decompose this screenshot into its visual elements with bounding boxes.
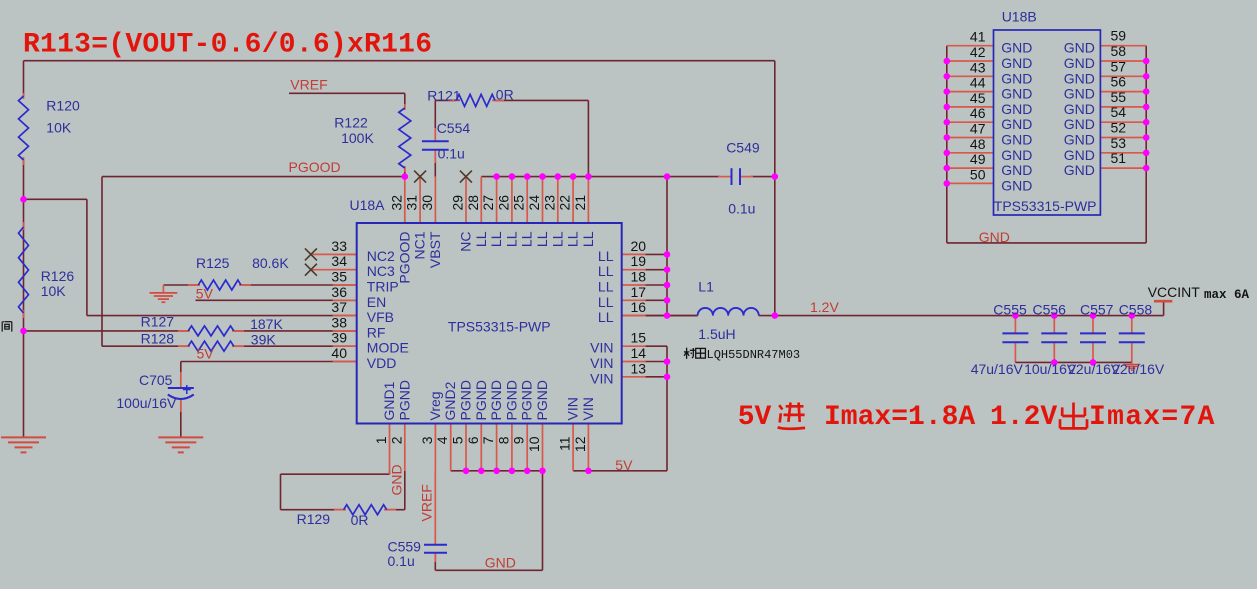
svg-text:GND: GND [1064,40,1095,56]
svg-text:18: 18 [631,269,647,285]
svg-text:LL: LL [549,231,565,247]
svg-text:56: 56 [1111,74,1127,90]
svg-text:VIN: VIN [590,370,613,386]
svg-text:5V: 5V [197,346,215,362]
svg-text:30: 30 [419,195,435,211]
svg-text:U18B: U18B [1002,9,1037,25]
svg-text:187K: 187K [250,316,283,332]
svg-text:PGOOD: PGOOD [396,232,412,284]
svg-text:45: 45 [970,90,986,106]
svg-text:100u/16V: 100u/16V [116,395,177,411]
svg-text:0.1u: 0.1u [388,553,415,569]
svg-text:TPS53315-PWP: TPS53315-PWP [448,319,551,335]
svg-text:GND: GND [1001,147,1032,163]
svg-text:52: 52 [1111,120,1127,136]
svg-text:9: 9 [511,436,527,444]
svg-text:0R: 0R [351,512,369,528]
svg-text:VIN: VIN [590,340,613,356]
svg-text:L1: L1 [698,279,714,295]
svg-text:GND: GND [1064,116,1095,132]
svg-text:0.1u: 0.1u [438,146,465,162]
svg-text:10: 10 [526,436,542,452]
svg-text:22: 22 [557,195,573,211]
svg-text:5: 5 [450,436,466,444]
svg-text:LL: LL [519,231,535,247]
svg-text:R120: R120 [46,98,80,114]
svg-text:GND: GND [1064,86,1095,102]
svg-text:GND: GND [1001,55,1032,71]
svg-text:RF: RF [367,324,386,340]
svg-text:44: 44 [970,75,986,91]
svg-text:R121: R121 [427,88,461,104]
svg-text:12: 12 [572,436,588,452]
svg-text:47u/16V: 47u/16V [971,361,1024,377]
svg-text:GND1: GND1 [381,381,397,420]
svg-text:VDD: VDD [367,355,397,371]
svg-text:5V: 5V [738,402,772,433]
svg-text:TRIP: TRIP [367,279,399,295]
svg-text:PGND: PGND [519,380,535,420]
svg-text:54: 54 [1111,104,1127,120]
svg-text:LL: LL [598,263,614,279]
svg-text:C555: C555 [993,302,1027,318]
svg-text:80.6K: 80.6K [252,255,289,271]
svg-text:C556: C556 [1033,302,1067,318]
svg-text:VIN: VIN [580,397,596,420]
svg-text:PGND: PGND [396,380,412,420]
svg-text:40: 40 [331,345,347,361]
svg-text:GND: GND [1001,162,1032,178]
svg-text:PGND: PGND [503,380,519,420]
svg-text:1.2V: 1.2V [990,402,1057,433]
svg-text:11: 11 [557,436,573,451]
svg-text:34: 34 [331,253,347,269]
svg-text:38: 38 [331,314,347,330]
svg-text:GND: GND [1064,162,1095,178]
svg-text:GND: GND [1064,132,1095,148]
svg-text:LL: LL [598,279,614,295]
svg-text:LL: LL [488,231,504,247]
svg-text:R127: R127 [141,314,175,330]
svg-text:R128: R128 [141,331,175,347]
svg-text:35: 35 [331,269,347,285]
svg-text:2: 2 [388,436,404,444]
svg-text:max 6A: max 6A [1204,288,1250,302]
svg-text:GND: GND [1064,70,1095,86]
svg-text:55: 55 [1111,89,1127,105]
svg-text:VREF: VREF [419,484,435,521]
svg-text:50: 50 [970,166,986,182]
svg-text:U18A: U18A [350,197,386,213]
svg-text:C558: C558 [1119,302,1153,318]
svg-text:C557: C557 [1080,302,1114,318]
svg-text:VIN: VIN [590,355,613,371]
svg-text:GND: GND [1001,101,1032,117]
svg-text:GND2: GND2 [442,381,458,420]
svg-text:VFB: VFB [367,309,394,325]
svg-text:13: 13 [631,360,647,376]
svg-text:LL: LL [580,231,596,247]
svg-text:LQH55DNR47M03: LQH55DNR47M03 [707,348,801,362]
svg-text:47: 47 [970,121,986,137]
svg-text:3: 3 [419,436,435,444]
svg-text:NC2: NC2 [367,248,395,264]
svg-text:Imax=7A: Imax=7A [1089,402,1216,433]
svg-text:VBST: VBST [427,231,443,268]
svg-text:59: 59 [1111,28,1127,44]
svg-text:PGOOD: PGOOD [289,159,341,175]
svg-text:48: 48 [970,136,986,152]
svg-text:R125: R125 [196,255,230,271]
svg-text:LL: LL [473,231,489,247]
svg-text:46: 46 [970,105,986,121]
svg-text:0R: 0R [496,87,514,103]
svg-text:33: 33 [331,238,347,254]
svg-text:C554: C554 [437,120,471,136]
svg-text:NC3: NC3 [367,263,395,279]
svg-text:5V: 5V [196,286,214,302]
svg-text:39K: 39K [251,332,277,348]
svg-text:R122: R122 [334,115,368,131]
svg-text:GND: GND [1001,70,1032,86]
svg-text:1.2V: 1.2V [810,299,839,315]
svg-text:GND: GND [1064,147,1095,163]
svg-text:10K: 10K [41,283,67,299]
svg-text:0.1u: 0.1u [728,201,755,217]
svg-text:GND: GND [1001,40,1032,56]
svg-text:LL: LL [534,231,550,247]
svg-text:22u/16V: 22u/16V [1112,361,1165,377]
svg-text:1.5uH: 1.5uH [698,326,735,342]
svg-text:R113=(VOUT-0.6/0.6)xR116: R113=(VOUT-0.6/0.6)xR116 [23,30,432,61]
svg-text:PGND: PGND [473,380,489,420]
svg-text:39: 39 [331,330,347,346]
svg-text:36: 36 [331,284,347,300]
svg-text:GND: GND [1001,116,1032,132]
svg-text:VIN: VIN [565,397,581,420]
svg-text:6: 6 [465,436,481,444]
svg-text:20: 20 [631,238,647,254]
svg-text:EN: EN [367,294,386,310]
svg-text:PGND: PGND [458,380,474,420]
svg-text:37: 37 [331,299,347,315]
svg-text:NC1: NC1 [412,231,428,259]
svg-text:5V: 5V [615,457,633,473]
svg-text:GND: GND [485,555,516,571]
svg-text:25: 25 [511,195,527,211]
svg-text:R126: R126 [41,268,75,284]
svg-text:29: 29 [450,195,466,211]
svg-text:26: 26 [495,195,511,211]
svg-text:24: 24 [526,195,542,211]
svg-text:LL: LL [598,248,614,264]
svg-text:LL: LL [598,294,614,310]
svg-text:17: 17 [631,284,647,300]
svg-text:4: 4 [434,436,450,444]
svg-text:R129: R129 [297,511,331,527]
svg-text:8: 8 [495,436,511,444]
svg-text:15: 15 [631,330,647,346]
svg-text:GND: GND [1064,101,1095,117]
svg-text:23: 23 [541,195,557,211]
svg-text:49: 49 [970,151,986,167]
svg-text:21: 21 [572,195,588,211]
svg-text:VCCINT: VCCINT [1148,284,1201,300]
svg-text:43: 43 [970,59,986,75]
svg-text:32: 32 [388,195,404,211]
svg-text:58: 58 [1111,43,1127,59]
svg-text:28: 28 [465,195,481,211]
svg-text:Vreg: Vreg [427,391,443,420]
svg-text:GND: GND [1064,55,1095,71]
svg-text:LL: LL [565,231,581,247]
svg-text:Imax=1.8A: Imax=1.8A [824,402,975,433]
svg-text:GND: GND [979,229,1010,245]
svg-text:PGND: PGND [488,380,504,420]
svg-text:C705: C705 [139,372,173,388]
svg-text:LL: LL [598,309,614,325]
svg-text:TPS53315-PWP: TPS53315-PWP [994,198,1097,214]
svg-text:1: 1 [373,436,389,444]
svg-text:41: 41 [970,29,986,45]
svg-text:VREF: VREF [290,77,327,93]
svg-text:27: 27 [480,195,496,211]
svg-text:LL: LL [503,231,519,247]
svg-text:GND: GND [1001,86,1032,102]
svg-text:GND: GND [389,464,405,495]
svg-text:7: 7 [480,436,496,444]
svg-text:GND: GND [1001,177,1032,193]
svg-text:57: 57 [1111,58,1127,74]
svg-text:53: 53 [1111,135,1127,151]
svg-text:NC: NC [458,232,474,252]
svg-text:10K: 10K [46,120,72,136]
svg-text:42: 42 [970,44,986,60]
svg-text:100K: 100K [341,130,374,146]
svg-text:MODE: MODE [367,340,409,356]
svg-text:31: 31 [404,195,420,211]
svg-text:GND: GND [1001,132,1032,148]
svg-text:51: 51 [1111,150,1127,166]
svg-text:19: 19 [631,253,647,269]
svg-text:C549: C549 [726,140,760,156]
svg-text:16: 16 [631,299,647,315]
svg-text:14: 14 [631,345,647,361]
svg-text:PGND: PGND [534,380,550,420]
